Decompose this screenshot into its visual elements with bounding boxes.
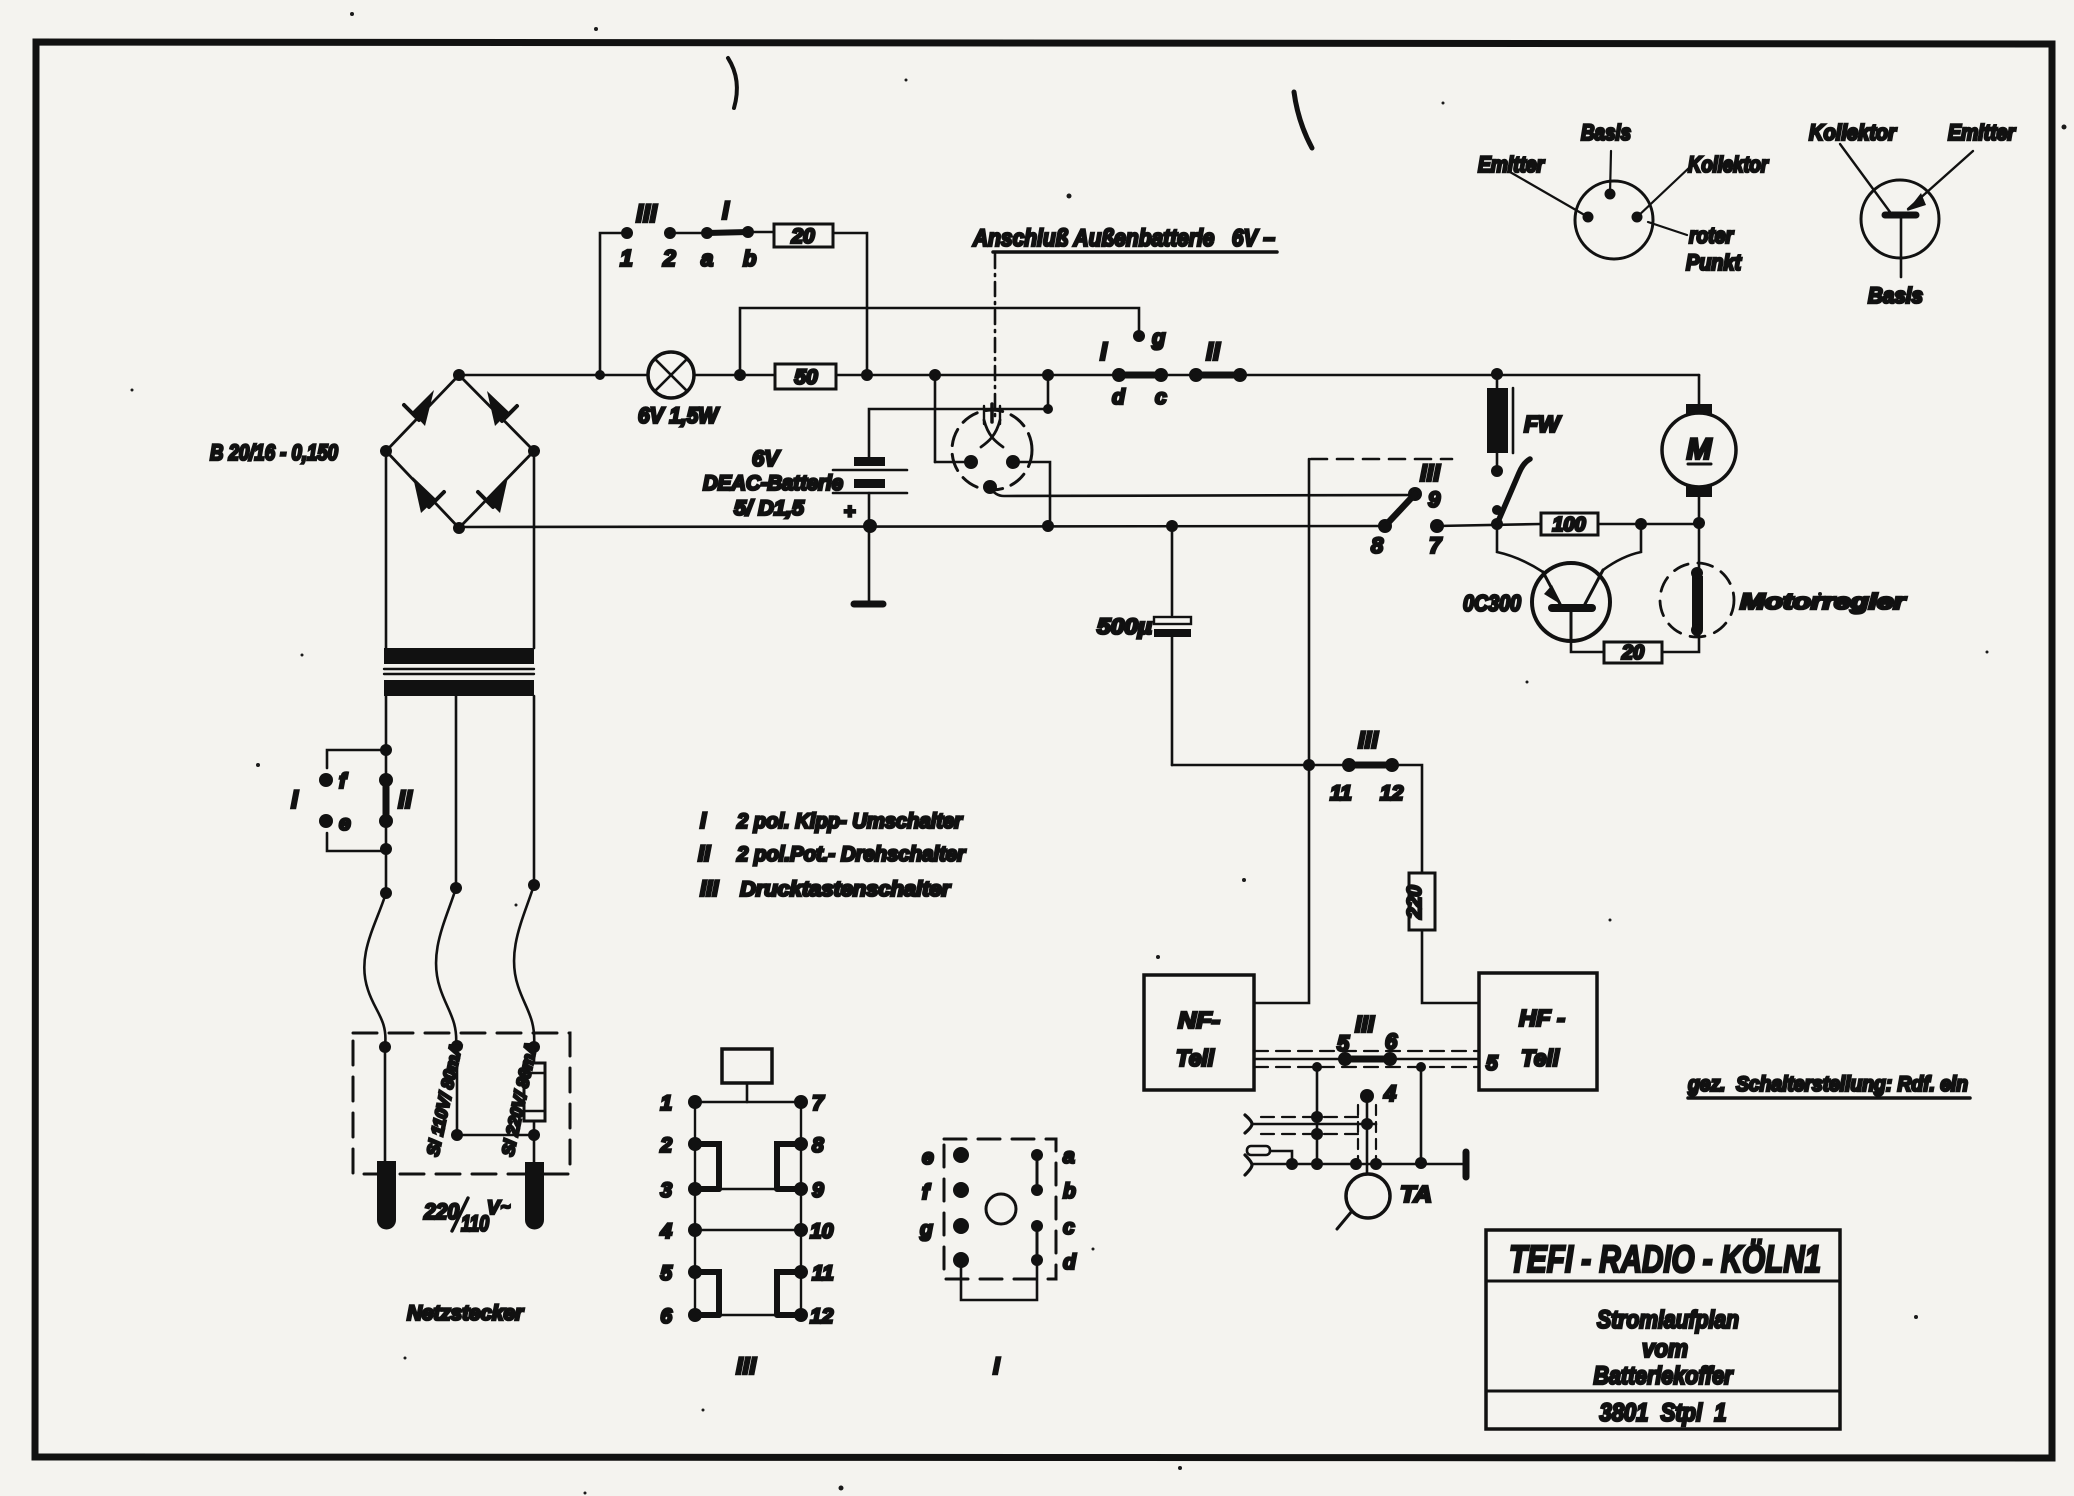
- svg-text:100: 100: [1552, 514, 1585, 536]
- svg-text:B 20/16 - 0,150: B 20/16 - 0,150: [210, 440, 339, 465]
- svg-text:III: III: [1355, 1011, 1375, 1037]
- svg-text:220: 220: [1404, 885, 1426, 919]
- audio bus dashed pair: [1254, 1051, 1479, 1067]
- svg-text:I: I: [291, 786, 299, 814]
- switch I contacts d-c on rail: [1100, 338, 1168, 409]
- svg-text:roter: roter: [1689, 223, 1734, 248]
- wire collector from node: [1603, 524, 1641, 570]
- fuse Si 220V: [524, 1041, 545, 1162]
- node rail x935: [929, 369, 941, 381]
- node primary mid cord start: [450, 882, 462, 894]
- rotary switch I shaft circle: [986, 1194, 1016, 1224]
- svg-text:I: I: [700, 808, 707, 833]
- contact 4 and TA stem: [1360, 1081, 1396, 1174]
- diode top-left: [404, 390, 434, 426]
- svg-text:7: 7: [812, 1092, 825, 1115]
- primary switch II closed blade: [379, 773, 413, 828]
- pickup line bottom: [1252, 1152, 1466, 1177]
- mains cord wavy wires: [364, 885, 534, 1046]
- drop wire from bus to pickup line: [1311, 1062, 1323, 1170]
- label Si 110V/80mA: [423, 1041, 465, 1157]
- connector bottom pin: [983, 480, 1415, 496]
- NF-Teil box: [1144, 975, 1254, 1090]
- node rail x1048: [1042, 369, 1054, 381]
- label I under rotary switch: [993, 1353, 1001, 1380]
- svg-text:Batteriekoffer: Batteriekoffer: [1594, 1362, 1734, 1390]
- dashed guides around TA stem: [1358, 1105, 1376, 1164]
- fuse box middle wire: [451, 1040, 534, 1141]
- svg-text:~: ~: [501, 1199, 510, 1216]
- battery ground stub: [854, 526, 883, 604]
- svg-text:b: b: [1063, 1180, 1076, 1203]
- drop wire from bus right: [1415, 1062, 1427, 1169]
- wire from switch III contact 1 down to rail: [595, 233, 627, 380]
- svg-text:2: 2: [662, 245, 676, 271]
- svg-text:2 pol. Kipp- Umschalter: 2 pol. Kipp- Umschalter: [736, 810, 964, 833]
- svg-text:12: 12: [810, 1305, 834, 1328]
- svg-text:III: III: [1358, 727, 1379, 754]
- svg-text:6V 1,5W: 6V 1,5W: [638, 403, 720, 428]
- svg-text:I: I: [722, 197, 730, 225]
- svg-text:220: 220: [423, 1199, 460, 1224]
- svg-text:M: M: [1687, 433, 1713, 466]
- svg-text:500µ: 500µ: [1097, 614, 1152, 639]
- svg-text:Kollektor: Kollektor: [1809, 120, 1897, 145]
- svg-text:gez. Schalterstellung: Rdf. e: gez. Schalterstellung: Rdf. ein: [1687, 1073, 1968, 1096]
- wire capacitor to contacts 11-12: [1172, 759, 1349, 771]
- svg-text:110: 110: [461, 1211, 490, 1236]
- svg-text:2 pol.Pot.- Drehschalter: 2 pol.Pot.- Drehschalter: [736, 843, 967, 866]
- connector left pin: [935, 455, 978, 469]
- svg-text:1: 1: [660, 1092, 672, 1115]
- lower plus rail wire: [459, 526, 1385, 527]
- svg-text:HF -: HF -: [1519, 1005, 1565, 1031]
- contact g: [1133, 325, 1166, 350]
- pushbutton III pin numbers: [659, 1092, 834, 1328]
- battery 6V DEAC: [703, 446, 907, 526]
- wire emitter from node: [1497, 524, 1543, 572]
- diode bottom-left: [413, 477, 444, 513]
- label Netzstecker: [407, 1302, 525, 1325]
- label III under pushbutton: [736, 1353, 757, 1380]
- label 220/110V: [423, 1198, 510, 1236]
- rotary switch I dashed box: [944, 1139, 1056, 1279]
- wire 12 to resistor 220: [1392, 765, 1422, 873]
- switch III contacts 8-9 blade: [1371, 460, 1441, 558]
- switch II contacts on rail: [1189, 338, 1247, 382]
- wire connector to contact9: [1408, 487, 1422, 501]
- Anschluss Aussenbatterie label: [972, 225, 1277, 252]
- svg-text:20: 20: [1621, 642, 1644, 664]
- resistor 220: [1404, 873, 1435, 930]
- transformer core: [384, 648, 534, 696]
- wire resistor 100 to motor bottom: [1598, 517, 1705, 530]
- bypass wire rail to g-line: [740, 308, 1139, 375]
- svg-text:3801 Stpl 1: 3801 Stpl 1: [1600, 1399, 1727, 1427]
- switch III contacts 5-6: [1337, 1011, 1398, 1066]
- svg-text:11: 11: [812, 1262, 834, 1285]
- node at lamp left on rail: [734, 369, 746, 381]
- main supply rail wire: [459, 374, 1699, 377]
- wire contact2 to switch I: [670, 232, 707, 235]
- fuse box left wire: [379, 1041, 391, 1161]
- svg-text:II: II: [1206, 338, 1221, 366]
- pushbutton III contact dots: [688, 1095, 808, 1322]
- svg-text:Drucktastenschalter: Drucktastenschalter: [740, 878, 952, 901]
- HF-Teil box: [1479, 973, 1597, 1090]
- svg-text:Punkt: Punkt: [1686, 250, 1742, 275]
- node battery plus: [863, 519, 877, 533]
- switch I contacts a-b closed blade: [701, 197, 756, 271]
- wire contact 7 to resistor 100: [1437, 518, 1541, 530]
- svg-text:TEFI - RADIO - KÖLN1: TEFI - RADIO - KÖLN1: [1509, 1238, 1821, 1281]
- svg-text:Kollektor: Kollektor: [1688, 152, 1769, 177]
- pickup small component: [1247, 1146, 1292, 1164]
- node x1048 lower rail: [1042, 520, 1054, 532]
- resistor 20 motor: [1604, 642, 1662, 664]
- svg-text:+: +: [844, 501, 856, 523]
- svg-text:5: 5: [660, 1262, 672, 1285]
- switch contact below FW with blade: [1492, 459, 1530, 524]
- svg-text:II: II: [398, 786, 413, 814]
- pickup dashed lines: [1261, 1117, 1358, 1134]
- svg-text:g: g: [919, 1218, 933, 1241]
- svg-text:g: g: [1151, 325, 1166, 350]
- node primary right cord start: [528, 879, 540, 891]
- svg-text:10: 10: [810, 1220, 834, 1243]
- svg-text:Teil: Teil: [1176, 1045, 1215, 1071]
- node primary left cord start: [380, 887, 392, 899]
- svg-text:8: 8: [1371, 533, 1384, 558]
- transformer primary wires: [386, 696, 534, 893]
- svg-text:e: e: [922, 1146, 934, 1169]
- long vertical wire to NF: [1254, 459, 1309, 1003]
- svg-text:50: 50: [794, 366, 818, 389]
- rotary switch I labels: [919, 1145, 1077, 1274]
- fuse box dashed outline: [353, 1033, 570, 1174]
- svg-text:III: III: [700, 876, 719, 901]
- svg-text:V: V: [487, 1198, 501, 1219]
- legend switch key: [698, 808, 967, 901]
- diode bottom-right: [478, 477, 508, 513]
- svg-text:6V: 6V: [752, 446, 781, 471]
- transistor symbol pinout: [1809, 120, 2016, 308]
- svg-text:d: d: [1112, 386, 1126, 409]
- svg-text:6: 6: [660, 1305, 672, 1328]
- wire b to resistor 20: [748, 231, 774, 234]
- svg-text:9: 9: [1428, 487, 1441, 512]
- svg-text:c: c: [1155, 386, 1167, 409]
- connector top pin: [981, 404, 1003, 447]
- svg-text:5: 5: [1337, 1031, 1350, 1056]
- svg-text:NF-: NF-: [1178, 1007, 1220, 1033]
- switch III contacts 11-12: [1330, 727, 1404, 805]
- svg-text:FW: FW: [1524, 411, 1562, 437]
- Motorregler: [1660, 523, 1907, 637]
- audio bus NF to HF solid: [1254, 1058, 1479, 1061]
- svg-text:a: a: [701, 246, 713, 271]
- svg-text:Netzstecker: Netzstecker: [407, 1302, 525, 1325]
- svg-text:5/ D1,5: 5/ D1,5: [734, 497, 804, 520]
- svg-text:TA: TA: [1400, 1181, 1432, 1207]
- svg-text:III: III: [1420, 460, 1441, 487]
- connector right pin: [1006, 455, 1050, 526]
- svg-text:5: 5: [1486, 1052, 1498, 1075]
- svg-text:6: 6: [1385, 1029, 1398, 1054]
- node capacitor junction: [1166, 520, 1178, 532]
- svg-text:Motorregler: Motorregler: [1740, 589, 1907, 614]
- svg-text:Teil: Teil: [1521, 1045, 1560, 1071]
- label Si 220V/80mA: [498, 1040, 541, 1158]
- mains plug prong left: [377, 1161, 396, 1230]
- svg-text:DEAC-Batterie: DEAC-Batterie: [703, 472, 843, 495]
- switch III contact 7: [1429, 519, 1444, 558]
- svg-text:Basis: Basis: [1868, 283, 1923, 308]
- svg-text:b: b: [743, 246, 756, 271]
- svg-text:II: II: [698, 841, 711, 866]
- svg-text:20: 20: [790, 225, 815, 248]
- svg-text:e: e: [339, 812, 351, 835]
- dash-dot lead from label to connector: [994, 254, 997, 420]
- lamp 6V 1.5W: [638, 352, 720, 428]
- svg-text:Stromlaufplan: Stromlaufplan: [1597, 1306, 1739, 1334]
- capacitor 500u: [1097, 526, 1191, 765]
- pushbutton switch III diagram: [695, 1049, 801, 1315]
- svg-text:7: 7: [1429, 533, 1443, 558]
- svg-text:4: 4: [1383, 1081, 1396, 1106]
- diode top-right: [487, 391, 517, 426]
- TA pickup: [1337, 1174, 1432, 1229]
- resistor 50: [775, 364, 836, 389]
- svg-text:9: 9: [812, 1179, 824, 1202]
- wire from resistor 20 down to rail: [833, 233, 873, 381]
- svg-text:12: 12: [1380, 782, 1404, 805]
- rotary switch I contacts: [953, 1147, 1043, 1268]
- svg-text:11: 11: [1330, 782, 1352, 805]
- node rail at FW: [1491, 368, 1503, 380]
- pickup plug arcs: [1245, 1115, 1252, 1175]
- svg-text:Anschluß Außenbatterie 6V –: Anschluß Außenbatterie 6V –: [972, 225, 1275, 252]
- svg-text:d: d: [1063, 1251, 1077, 1274]
- battery connector socket (dashed circle): [952, 410, 1032, 490]
- transistor OC300: [1463, 563, 1610, 641]
- primary switch I contacts f e: [291, 744, 392, 855]
- svg-text:vom: vom: [1642, 1335, 1688, 1363]
- svg-text:a: a: [1063, 1145, 1075, 1168]
- svg-text:III: III: [736, 1353, 757, 1380]
- svg-text:8: 8: [812, 1134, 824, 1157]
- svg-text:3: 3: [660, 1179, 672, 1202]
- mains plug prong right: [525, 1162, 544, 1230]
- wire battery minus to rail: [869, 375, 1053, 462]
- resistor 20: [774, 224, 833, 248]
- switch III contacts 1-2: [620, 200, 676, 271]
- svg-text:III: III: [636, 200, 658, 228]
- transistor pinout bottom view: [1478, 120, 1769, 275]
- field winding FW: [1487, 375, 1562, 477]
- svg-text:c: c: [1063, 1216, 1075, 1239]
- wire base to resistor 20b: [1571, 641, 1604, 652]
- pickup line solid upper: [1252, 1118, 1376, 1130]
- svg-text:Emitter: Emitter: [1478, 152, 1545, 177]
- title block: [1486, 1230, 1840, 1429]
- wire resistor to motorregler: [1662, 632, 1699, 652]
- mechanical coupling dash line: [1311, 458, 1452, 461]
- gez. Schalterstellung note: [1687, 1073, 1970, 1098]
- transformer secondary wires: [386, 451, 534, 648]
- svg-text:4: 4: [659, 1220, 672, 1243]
- svg-text:1: 1: [620, 245, 633, 271]
- svg-text:Basis: Basis: [1581, 120, 1631, 145]
- wire resistor 220 to HF: [1422, 930, 1481, 1003]
- resistor 100: [1541, 513, 1598, 536]
- svg-text:0C300: 0C300: [1463, 590, 1521, 616]
- svg-text:Emitter: Emitter: [1948, 120, 2016, 145]
- bridge rectifier B20/16: [210, 369, 540, 534]
- rotary switch I links: [961, 1155, 1037, 1300]
- svg-text:2: 2: [659, 1134, 672, 1157]
- motor M: [1662, 375, 1736, 523]
- svg-text:I: I: [1100, 338, 1108, 366]
